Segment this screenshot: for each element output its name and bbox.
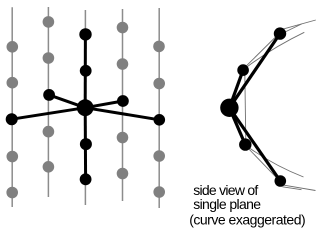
black atom col3 row4 [80, 138, 92, 150]
gray atom col2 row5 [43, 161, 55, 173]
black atom near-right [117, 95, 129, 107]
gray atom col1 row5 [6, 187, 18, 199]
bond center to upper black atom [84, 34, 87, 107]
lattice column line 1 [11, 7, 13, 207]
gray atom col4 row1 [117, 22, 129, 34]
gray atom col4 row2 [117, 58, 129, 70]
black atom col3 row2 [80, 65, 92, 77]
lattice column line 5 [158, 8, 160, 208]
side view upper near atom [237, 64, 249, 76]
side view: thin guide beyond top atom short [286, 24, 302, 32]
side view bond big to top [229, 34, 280, 108]
bond center to near-left black atom [49, 95, 85, 108]
side view top atom [274, 27, 286, 39]
side view bond big to bottom [229, 108, 280, 181]
bond center to lower black atom [84, 108, 87, 180]
side view big atom [220, 99, 238, 117]
gray atom col4 row4 [117, 132, 129, 144]
side view: thin guide beyond bottom atom short [283, 187, 302, 190]
black atom far-right [154, 114, 166, 126]
gray atom col2 row4 [43, 126, 55, 138]
gray atom col4 row5 [117, 168, 129, 180]
bond center to far-right black atom [85, 108, 159, 120]
svg-text:(curve exaggerated): (curve exaggerated) [189, 212, 305, 228]
bond center to far-left black atom [12, 108, 86, 120]
lattice column line 2 [47, 7, 49, 197]
gray atom col5 row4 [153, 150, 165, 162]
side view: thin chord upper-near to top [243, 33, 280, 69]
black atom col3 row5 [80, 173, 92, 185]
gray atom col1 row1 [7, 41, 19, 53]
gray atom col5 row5 [153, 186, 165, 198]
side view: thin curve guide from lower-near past bottom atom [248, 147, 304, 177]
gray atom col5 row2 [153, 78, 165, 90]
lattice column line 4 [122, 9, 124, 201]
bond center to near-right black atom [85, 101, 123, 108]
gray atom col2 row1 [43, 16, 55, 28]
lattice column line 3 [84, 10, 86, 205]
black atom far-left [6, 113, 18, 125]
svg-text:single plane: single plane [193, 196, 261, 212]
gray atom col1 row4 [7, 151, 19, 163]
side view: thin chord between upper and lower near atoms [245, 72, 246, 141]
black atom near-left [43, 89, 55, 101]
side view lower near atom [239, 138, 251, 150]
side view bottom atom [275, 175, 287, 187]
side view bond big to upper near [229, 70, 243, 108]
side view: thin curve guide from upper-near past top atom [248, 32, 305, 66]
gray atom col1 row2 [7, 77, 19, 89]
gray atom col5 row1 [153, 41, 165, 53]
gray atom col2 row2 [43, 52, 55, 64]
side view: thin guide beyond bottom atom long [281, 185, 316, 191]
central black atom [77, 99, 94, 116]
side view: thin guide beyond top atom long [280, 20, 316, 30]
side view: thin chord lower-near to bottom [246, 146, 281, 182]
side view bond big to lower near [229, 108, 245, 145]
black atom col3 row1 [79, 28, 91, 40]
